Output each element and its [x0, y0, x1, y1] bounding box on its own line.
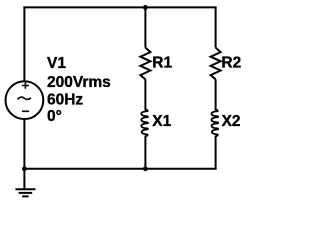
svg-text:R1: R1 — [152, 54, 172, 71]
svg-text:200Vrms: 200Vrms — [47, 74, 111, 91]
wire top horizontal — [23, 6, 216, 8]
node junction bottom left — [22, 166, 27, 171]
wire left vertical lower — [23, 120, 25, 170]
node junction top (branch R1) — [143, 5, 148, 10]
svg-text:X2: X2 — [222, 113, 241, 130]
wire branch2 middle — [215, 79, 217, 110]
wire branch1 top — [144, 7, 146, 47]
wire branch2 bottom — [215, 136, 217, 169]
wire branch1 bottom — [144, 136, 146, 169]
wire bottom horizontal — [23, 168, 216, 170]
ground stub wire — [23, 169, 25, 190]
plus sign — [22, 82, 29, 89]
wire left vertical upper — [23, 6, 25, 80]
wire branch1 middle — [144, 79, 146, 110]
inductor X1 — [141, 110, 148, 137]
inductor X2 — [211, 110, 218, 137]
svg-text:X1: X1 — [152, 113, 171, 130]
svg-text:60Hz: 60Hz — [47, 92, 83, 109]
ground — [15, 189, 35, 196]
voltage source V1 — [6, 81, 44, 119]
minus sign — [22, 110, 29, 112]
svg-text:V1: V1 — [47, 55, 66, 72]
node junction bottom (branch X1) — [143, 166, 148, 171]
resistor R1 — [140, 48, 150, 80]
svg-text:R2: R2 — [221, 54, 241, 71]
sine symbol — [18, 97, 31, 99]
svg-text:0°: 0° — [47, 108, 62, 125]
resistor R2 — [211, 48, 221, 80]
wire branch2 top — [215, 7, 217, 47]
